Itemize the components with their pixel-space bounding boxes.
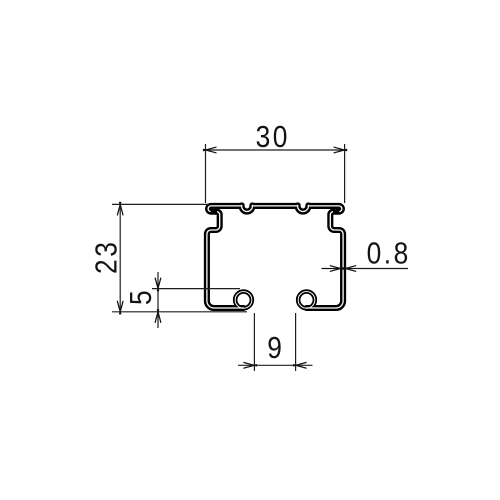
dim 5: top extension line (152, 288, 240, 290)
dim 23: bottom extension line (shared with dim 5) (112, 311, 247, 313)
dim 5: top arrow (outside, pointing down) (155, 278, 161, 291)
dim 5: bottom arrow (outside, pointing up) (155, 310, 161, 323)
dim 0.8: inner arrow tail (322, 268, 341, 270)
dim 23: dimension line (119, 204, 121, 311)
hem fold solid fill left (211, 211, 217, 213)
profile outline (C-channel track cross-section, black stroke) (207, 205, 343, 308)
dim 30: right extension line (344, 144, 346, 203)
dim 30: right arrow (334, 147, 347, 153)
hem fold solid fill right (333, 211, 339, 213)
dim 0.8: inner arrow (pointing right at wall) (330, 266, 343, 272)
dim 5: dimension line (157, 272, 159, 328)
dim 0.8: leader line (345, 268, 408, 270)
dim 9: dimension line (238, 364, 313, 366)
dim 23: bottom arrow (117, 301, 123, 314)
dim 9: left extension line (253, 313, 255, 371)
svg-text:23: 23 (90, 240, 124, 274)
dim 0.8: outer arrow (pointing left at wall) (343, 266, 356, 272)
dim 30: left arrow (203, 147, 216, 153)
dim 23: top arrow (117, 202, 123, 215)
dim 9: right arrow (outside, pointing left) (294, 363, 307, 369)
left and right bottom curls (black stroke) (235, 292, 315, 309)
dim 9: left arrow (outside, pointing right) (244, 363, 257, 369)
svg-text:9: 9 (267, 331, 284, 365)
svg-text:30: 30 (256, 120, 290, 154)
white centerline overlay of outline (207, 205, 343, 308)
dim 30: dimension line (206, 149, 345, 151)
dim 23: top extension line (112, 203, 209, 205)
dim 9: right extension line (295, 313, 297, 371)
svg-text:0.8: 0.8 (367, 237, 411, 271)
white centerline overlay of curls (double-line sheet effect) (235, 292, 315, 309)
dim 30: left extension line (205, 144, 207, 203)
svg-text:5: 5 (124, 288, 158, 305)
